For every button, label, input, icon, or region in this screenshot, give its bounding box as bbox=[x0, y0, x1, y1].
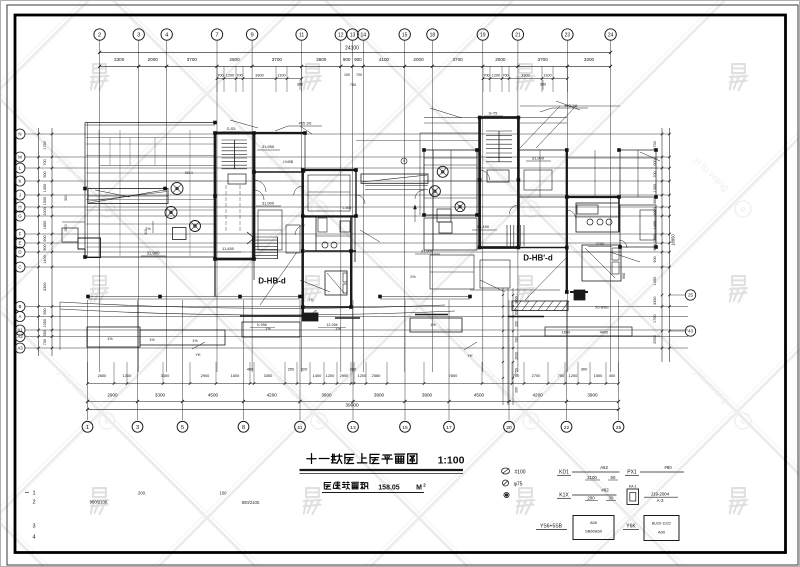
svg-text:BU20-11/22: BU20-11/22 bbox=[652, 522, 671, 526]
svg-text:SB60&60: SB60&60 bbox=[585, 529, 603, 534]
svg-text:900: 900 bbox=[343, 57, 351, 62]
svg-text:13: 13 bbox=[350, 33, 356, 39]
svg-text:A62: A62 bbox=[600, 465, 608, 470]
svg-text:4900: 4900 bbox=[600, 331, 608, 335]
svg-text:2900: 2900 bbox=[201, 373, 210, 378]
svg-text:e: e bbox=[104, 416, 109, 426]
svg-text:#80: #80 bbox=[664, 465, 672, 470]
svg-text:2000: 2000 bbox=[413, 57, 424, 62]
svg-text:700: 700 bbox=[502, 73, 508, 77]
svg-text:A-3: A-3 bbox=[657, 498, 664, 503]
svg-text:2900: 2900 bbox=[107, 393, 118, 398]
svg-text:3300: 3300 bbox=[521, 73, 529, 77]
svg-text:31,900: 31,900 bbox=[421, 249, 434, 254]
svg-text:YS6+5SB: YS6+5SB bbox=[540, 524, 562, 530]
svg-text:250: 250 bbox=[288, 367, 295, 372]
svg-text:E: E bbox=[19, 241, 22, 246]
svg-text:1200: 1200 bbox=[569, 373, 578, 378]
svg-text:e: e bbox=[740, 204, 745, 214]
svg-text:11: 11 bbox=[299, 33, 304, 39]
svg-text:1600: 1600 bbox=[231, 373, 240, 378]
svg-text:900: 900 bbox=[515, 387, 519, 393]
svg-text:700: 700 bbox=[43, 159, 47, 165]
svg-text:2900: 2900 bbox=[340, 373, 349, 378]
svg-text:550: 550 bbox=[43, 330, 47, 336]
svg-text:1:100: 1:100 bbox=[438, 455, 465, 467]
svg-text:1300: 1300 bbox=[653, 184, 657, 192]
svg-text:3700: 3700 bbox=[272, 57, 283, 62]
svg-text:24: 24 bbox=[608, 33, 614, 39]
svg-text:3800: 3800 bbox=[316, 57, 327, 62]
svg-text:K-09#: K-09# bbox=[257, 323, 267, 327]
svg-text:900: 900 bbox=[354, 57, 362, 62]
svg-text:G-T5: G-T5 bbox=[489, 112, 498, 116]
svg-text:300: 300 bbox=[350, 367, 357, 372]
svg-text:A3: A3 bbox=[17, 346, 23, 351]
svg-text:550: 550 bbox=[43, 308, 47, 314]
svg-text:3050: 3050 bbox=[515, 296, 519, 304]
svg-text:13: 13 bbox=[350, 425, 356, 431]
svg-text:908: 908 bbox=[622, 273, 626, 279]
svg-text:39900: 39900 bbox=[345, 403, 359, 409]
svg-text:600: 600 bbox=[515, 309, 519, 315]
svg-text:A: A bbox=[19, 314, 22, 319]
svg-text:9: 9 bbox=[403, 159, 405, 163]
svg-text:900: 900 bbox=[43, 235, 47, 241]
svg-text:2600: 2600 bbox=[98, 373, 107, 378]
svg-text:4200: 4200 bbox=[533, 393, 544, 398]
svg-text:2000: 2000 bbox=[495, 57, 506, 62]
svg-text:XD-B981: XD-B981 bbox=[595, 306, 609, 310]
svg-text:2500: 2500 bbox=[229, 57, 240, 62]
svg-text:5: 5 bbox=[181, 425, 184, 431]
svg-text:F: F bbox=[19, 232, 22, 237]
svg-text:9: 9 bbox=[250, 33, 253, 39]
svg-text:K: K bbox=[19, 179, 22, 184]
svg-text:700: 700 bbox=[653, 171, 657, 177]
svg-text:D: D bbox=[18, 250, 21, 255]
svg-text:J: J bbox=[19, 193, 21, 198]
svg-text:700: 700 bbox=[483, 73, 489, 77]
svg-text:1500: 1500 bbox=[43, 197, 47, 205]
svg-text:200: 200 bbox=[587, 495, 595, 500]
svg-text:1450: 1450 bbox=[653, 277, 657, 285]
svg-text:M: M bbox=[416, 485, 422, 492]
svg-text:500: 500 bbox=[43, 171, 47, 177]
svg-text:YD: YD bbox=[309, 298, 314, 302]
svg-text:43: 43 bbox=[688, 329, 693, 334]
svg-text:1%: 1% bbox=[107, 337, 113, 341]
svg-text:1200: 1200 bbox=[226, 73, 234, 77]
svg-text:1400: 1400 bbox=[43, 255, 47, 263]
svg-text:1500: 1500 bbox=[64, 224, 68, 232]
svg-text:D-HB-d: D-HB-d bbox=[258, 277, 286, 286]
svg-text:7: 7 bbox=[215, 33, 218, 39]
svg-text:2: 2 bbox=[98, 33, 101, 39]
svg-text:900: 900 bbox=[653, 256, 657, 262]
svg-text:1100: 1100 bbox=[277, 73, 285, 77]
svg-text:2%: 2% bbox=[145, 227, 151, 231]
svg-text:4500: 4500 bbox=[208, 393, 219, 398]
svg-text:20: 20 bbox=[506, 425, 512, 431]
svg-text:KB-1: KB-1 bbox=[185, 171, 193, 175]
svg-text:1300: 1300 bbox=[123, 373, 132, 378]
svg-text:14: 14 bbox=[361, 33, 367, 39]
svg-text:100: 100 bbox=[344, 73, 350, 77]
svg-text:1200: 1200 bbox=[358, 373, 367, 378]
svg-text:3300: 3300 bbox=[584, 57, 595, 62]
svg-text:2700: 2700 bbox=[532, 373, 541, 378]
svg-text:K1X: K1X bbox=[559, 493, 569, 499]
svg-text:3: 3 bbox=[32, 524, 35, 530]
svg-text:e: e bbox=[316, 416, 321, 426]
svg-text:24100: 24100 bbox=[345, 46, 359, 52]
svg-text:31,900: 31,900 bbox=[147, 251, 160, 256]
svg-text:YK: YK bbox=[195, 352, 201, 357]
svg-text:17: 17 bbox=[446, 425, 452, 431]
svg-text:e: e bbox=[104, 204, 109, 214]
svg-text:4200: 4200 bbox=[267, 393, 278, 398]
svg-text:3300: 3300 bbox=[114, 57, 125, 62]
svg-text:3: 3 bbox=[136, 425, 139, 431]
svg-text:700: 700 bbox=[217, 73, 223, 77]
svg-text:1000: 1000 bbox=[43, 207, 47, 215]
svg-text:4: 4 bbox=[32, 535, 35, 541]
svg-text:600: 600 bbox=[653, 159, 657, 165]
svg-text:2560: 2560 bbox=[372, 373, 381, 378]
svg-text:L-50#: L-50# bbox=[343, 206, 352, 210]
svg-text:1500: 1500 bbox=[594, 373, 603, 378]
svg-text:2000: 2000 bbox=[148, 57, 159, 62]
svg-text:B: B bbox=[19, 304, 22, 309]
svg-text:3700: 3700 bbox=[538, 57, 549, 62]
svg-text:31,950: 31,950 bbox=[262, 144, 275, 149]
svg-text:1750: 1750 bbox=[653, 315, 657, 323]
svg-text:3900: 3900 bbox=[587, 393, 598, 398]
svg-text:D-HB'-d: D-HB'-d bbox=[523, 254, 553, 263]
svg-text:53,450: 53,450 bbox=[477, 224, 490, 229]
svg-text:1750: 1750 bbox=[515, 368, 519, 376]
svg-text:YK: YK bbox=[467, 353, 473, 358]
svg-text:3700: 3700 bbox=[187, 57, 198, 62]
svg-text:12-09#: 12-09# bbox=[326, 323, 337, 327]
svg-text:2600: 2600 bbox=[515, 352, 519, 360]
svg-text:700: 700 bbox=[236, 73, 242, 77]
svg-text:1100: 1100 bbox=[543, 73, 551, 77]
svg-text:e: e bbox=[528, 204, 533, 214]
svg-text:3300: 3300 bbox=[264, 373, 273, 378]
svg-text:800/2100.: 800/2100. bbox=[242, 500, 261, 505]
svg-text:e: e bbox=[316, 204, 321, 214]
svg-text:18: 18 bbox=[430, 33, 436, 39]
svg-text:18950: 18950 bbox=[671, 234, 676, 246]
svg-text:C: C bbox=[18, 265, 21, 270]
svg-text:1%: 1% bbox=[192, 339, 198, 343]
svg-text:3300: 3300 bbox=[43, 283, 47, 291]
svg-text:3300: 3300 bbox=[155, 393, 166, 398]
svg-text:KA-1: KA-1 bbox=[629, 485, 637, 489]
svg-text:25: 25 bbox=[688, 293, 693, 298]
svg-text:400: 400 bbox=[609, 373, 616, 378]
svg-text:2: 2 bbox=[32, 500, 35, 506]
svg-text:Y6K: Y6K bbox=[626, 524, 636, 530]
svg-text:15: 15 bbox=[402, 33, 408, 39]
svg-text:1750: 1750 bbox=[43, 141, 47, 149]
svg-text:1850: 1850 bbox=[43, 221, 47, 229]
svg-text:PX1: PX1 bbox=[627, 470, 637, 476]
svg-text:#100: #100 bbox=[514, 470, 525, 476]
svg-text:KD1: KD1 bbox=[559, 470, 569, 476]
svg-text:3700: 3700 bbox=[452, 57, 463, 62]
svg-text:700: 700 bbox=[356, 73, 362, 77]
svg-text:3350: 3350 bbox=[653, 297, 657, 305]
svg-text:900/2100.: 900/2100. bbox=[90, 500, 109, 505]
svg-text:15: 15 bbox=[402, 425, 408, 431]
svg-text:1%: 1% bbox=[430, 323, 436, 327]
svg-text:320: 320 bbox=[301, 367, 308, 372]
svg-text:3300: 3300 bbox=[255, 73, 263, 77]
svg-text:12: 12 bbox=[338, 33, 344, 39]
svg-text:J19-2004: J19-2004 bbox=[651, 492, 670, 497]
svg-text:7800: 7800 bbox=[449, 373, 458, 378]
svg-text:1200: 1200 bbox=[326, 373, 335, 378]
svg-text:G: G bbox=[18, 214, 22, 219]
svg-text:158.05: 158.05 bbox=[378, 485, 400, 492]
svg-text:1X45B: 1X45B bbox=[283, 160, 294, 164]
svg-text:3300: 3300 bbox=[161, 373, 170, 378]
svg-text:3900: 3900 bbox=[321, 393, 332, 398]
svg-text:2550: 2550 bbox=[653, 335, 657, 343]
svg-text:3900: 3900 bbox=[422, 393, 433, 398]
svg-text:N: N bbox=[18, 132, 21, 137]
svg-text:3: 3 bbox=[137, 33, 140, 39]
svg-text:100: 100 bbox=[220, 491, 228, 496]
svg-text:19: 19 bbox=[480, 33, 486, 39]
svg-text:4100: 4100 bbox=[379, 57, 390, 62]
svg-text:2%: 2% bbox=[410, 275, 416, 279]
svg-text:22: 22 bbox=[564, 425, 570, 431]
svg-text:#65 1/6: #65 1/6 bbox=[299, 122, 312, 126]
svg-text:8: 8 bbox=[242, 425, 245, 431]
svg-text:A00: A00 bbox=[658, 530, 666, 535]
svg-text:1%: 1% bbox=[149, 338, 155, 342]
svg-text:A2: A2 bbox=[17, 334, 23, 339]
svg-text:3900: 3900 bbox=[374, 393, 385, 398]
svg-text:23: 23 bbox=[565, 33, 571, 39]
svg-text:31,900: 31,900 bbox=[262, 201, 275, 206]
svg-text:21: 21 bbox=[515, 33, 521, 39]
svg-text:1350: 1350 bbox=[43, 184, 47, 192]
svg-text:11: 11 bbox=[297, 425, 302, 431]
svg-text:11,450: 11,450 bbox=[222, 246, 235, 251]
svg-text:e: e bbox=[740, 416, 745, 426]
svg-text:1: 1 bbox=[32, 491, 35, 497]
svg-text:400: 400 bbox=[247, 367, 254, 372]
svg-text:2700: 2700 bbox=[596, 242, 604, 246]
svg-text:700: 700 bbox=[515, 337, 519, 343]
svg-text:e: e bbox=[528, 416, 533, 426]
svg-text:25: 25 bbox=[616, 425, 622, 431]
svg-text:1: 1 bbox=[86, 425, 89, 431]
svg-text:1600: 1600 bbox=[562, 331, 570, 335]
svg-text:M: M bbox=[18, 155, 22, 160]
svg-text:700: 700 bbox=[43, 339, 47, 345]
svg-text:A00: A00 bbox=[590, 520, 598, 525]
svg-text:1200: 1200 bbox=[492, 73, 500, 77]
svg-text:#82: #82 bbox=[601, 488, 609, 493]
svg-text:31,900: 31,900 bbox=[532, 156, 545, 161]
svg-text:1400: 1400 bbox=[313, 373, 322, 378]
svg-text:φ75: φ75 bbox=[514, 482, 523, 488]
svg-text:30: 30 bbox=[609, 495, 614, 500]
svg-text:2100: 2100 bbox=[587, 475, 597, 480]
svg-text:G-S5: G-S5 bbox=[227, 127, 236, 131]
svg-text:250: 250 bbox=[515, 321, 519, 327]
svg-text:50: 50 bbox=[611, 475, 616, 480]
svg-text:200.: 200. bbox=[138, 491, 146, 496]
svg-text:H: H bbox=[18, 205, 21, 210]
svg-text:350: 350 bbox=[64, 195, 68, 201]
svg-text:4500: 4500 bbox=[474, 393, 485, 398]
svg-text:750: 750 bbox=[350, 83, 356, 87]
svg-text:300: 300 bbox=[581, 367, 588, 372]
svg-text:900: 900 bbox=[43, 244, 47, 250]
svg-text:750: 750 bbox=[558, 373, 565, 378]
svg-text:1050: 1050 bbox=[43, 319, 47, 327]
